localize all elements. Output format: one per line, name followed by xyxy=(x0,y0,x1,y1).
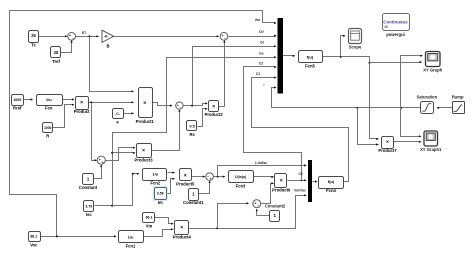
svg-text:Constant2: Constant2 xyxy=(265,203,286,208)
svg-text:Constant1: Constant1 xyxy=(183,200,204,205)
wire Sum2 to Product2 in1 xyxy=(184,102,208,106)
ramp Ramp xyxy=(452,95,465,114)
svg-text:+: + xyxy=(221,34,223,38)
svg-text:×: × xyxy=(212,104,215,110)
wire DT Sum1 to Gain B xyxy=(76,35,100,37)
wire Isc branch to Product3 in2 xyxy=(113,152,136,154)
svg-text:Constant: Constant xyxy=(79,185,98,190)
wire Fcn5 to XY Graph in2 xyxy=(323,56,423,64)
wire Product2 to Sum2b bottom xyxy=(219,40,226,106)
product Product1 xyxy=(136,88,155,125)
svg-text:0.5: 0.5 xyxy=(190,125,195,129)
svg-text:Fcn: Fcn xyxy=(45,106,53,111)
fcn Fcn1 1/u xyxy=(119,231,144,249)
svg-text:×: × xyxy=(142,148,145,154)
sum Sum3 irradiance xyxy=(97,156,105,165)
svg-text:Product1: Product1 xyxy=(136,119,155,124)
xy graph XY Graph1 xyxy=(420,131,442,152)
wire Product5 to Sum4 left xyxy=(191,176,206,178)
xy graph XY Graph xyxy=(423,52,442,73)
wire Tc to Sum1 left xyxy=(39,35,68,37)
wire DT branch to Product1 in1 xyxy=(90,37,135,93)
sum Sum2 after Product1 xyxy=(176,102,183,110)
fcn Fcn5 f(u) xyxy=(299,51,323,69)
wire I branch to Product7 in1 xyxy=(370,63,379,141)
wire Vm to Product4 in1 xyxy=(155,218,174,225)
svg-text:+: + xyxy=(210,177,212,181)
wire Product branch to Sum3 left xyxy=(92,103,97,162)
constant Constant2 value 1 xyxy=(265,203,286,221)
svg-text:1000: 1000 xyxy=(44,126,52,130)
svg-text:Fcn1: Fcn1 xyxy=(126,244,136,249)
svg-text:×: × xyxy=(386,140,389,146)
label DT xyxy=(82,31,87,35)
constant Constant1 value 1 xyxy=(183,189,204,206)
wire Mux1 to Fcn4 xyxy=(313,181,318,183)
label Vm/Voc at Mux1 xyxy=(294,189,306,193)
wire DI branch to Mux input DI xyxy=(193,45,277,105)
sum Sum5 Vm/Voc-1 xyxy=(253,200,261,208)
product Product5 xyxy=(176,169,195,187)
svg-text:f(u): f(u) xyxy=(328,179,335,184)
product Product4 xyxy=(173,221,192,240)
label DI at Mux xyxy=(260,41,263,45)
wire Product1 to Sum2 left xyxy=(152,103,173,107)
wire Product6 to Mux1 in2 C2 xyxy=(288,179,307,181)
svg-text:+: + xyxy=(254,202,256,206)
product Product2 xyxy=(205,101,224,118)
label Isc at Mux xyxy=(259,52,264,56)
svg-text:−: − xyxy=(257,204,259,208)
svg-text:×: × xyxy=(180,225,183,231)
fcn Fcn2 1/u xyxy=(143,169,167,186)
wire Tref to Sum1 bottom xyxy=(61,40,73,52)
svg-text:1/(ln(u): 1/(ln(u) xyxy=(235,175,246,179)
constant Vm value 66.1 xyxy=(143,213,155,229)
constant R value 1000 xyxy=(43,123,53,139)
wire 1-Im/Isc branch to Mux1 in1 xyxy=(218,164,307,176)
svg-text:Vm: Vm xyxy=(146,224,153,229)
wire branch to Scope xyxy=(341,35,346,57)
fcn Fcn3 1/(ln(u) xyxy=(229,171,254,189)
wire Fcn to Product in1 xyxy=(62,98,75,100)
wire V branch to Product7 in2 xyxy=(358,108,379,146)
svg-text:XY Graph: XY Graph xyxy=(423,68,442,73)
svg-text:Rs: Rs xyxy=(189,132,195,137)
svg-text:−: − xyxy=(224,37,226,41)
svg-text:Tc: Tc xyxy=(31,43,36,48)
wire Sum3 to Product3 in1 xyxy=(106,147,136,161)
product Product6 xyxy=(272,174,291,193)
powergui xyxy=(383,14,410,38)
svg-text:f(u): f(u) xyxy=(307,54,314,59)
svg-text:DI: DI xyxy=(260,41,263,45)
constant Tc value 25 xyxy=(29,31,39,48)
fcn Fcn4 f(u) xyxy=(319,177,344,194)
svg-text:-C-: -C- xyxy=(115,112,121,116)
wire Isc to Fcn2 input xyxy=(95,173,140,207)
svg-text:Vm/Voc: Vm/Voc xyxy=(294,189,306,193)
mux Mux1 xyxy=(308,160,312,202)
svg-text:Product5: Product5 xyxy=(176,182,195,187)
svg-text:Continuous: Continuous xyxy=(383,20,408,25)
label 1-Im/Isc xyxy=(255,161,267,165)
scope Scope xyxy=(349,29,362,50)
svg-text:×: × xyxy=(280,178,283,184)
fcn Fcn 1/u xyxy=(37,95,63,111)
svg-text:R: R xyxy=(46,134,49,139)
wire Im to Product5 in2 xyxy=(167,178,176,194)
wire Mux to Fcn5 xyxy=(283,55,296,57)
svg-text:Product6: Product6 xyxy=(272,188,291,193)
label DV at Mux xyxy=(259,30,264,34)
svg-text:−: − xyxy=(180,106,182,110)
wire Product3 to Sum2 bottom xyxy=(151,109,181,150)
wire Product4 to Mux1 in3 Vm/Voc xyxy=(189,194,307,229)
wire DV Sum2b to Mux xyxy=(229,35,277,37)
wire Rs to Product2 in2 xyxy=(198,108,208,127)
svg-text:Im: Im xyxy=(158,200,163,205)
wire Fcn3 to Product6 in1 xyxy=(254,176,275,178)
wire Gain B to Sum2b left xyxy=(114,35,220,37)
svg-text:×: × xyxy=(184,173,187,179)
constant Tref value 25 xyxy=(51,47,61,65)
svg-text:25: 25 xyxy=(31,33,36,38)
wire V branch to XY Graph in1 xyxy=(401,55,423,108)
svg-text:V: V xyxy=(263,83,266,87)
svg-text:Rref: Rref xyxy=(13,106,22,111)
constant Im value 3.56 selected xyxy=(153,186,168,205)
label C2 at Mux xyxy=(259,62,263,66)
constant Rref value 1000 xyxy=(12,95,24,111)
constant Voc value 88.1 xyxy=(29,232,41,248)
svg-text:Isc: Isc xyxy=(259,52,264,56)
svg-text:powergui: powergui xyxy=(386,32,405,37)
svg-text:−: − xyxy=(72,37,74,41)
svg-text:×: × xyxy=(80,100,83,106)
gain B xyxy=(102,30,114,48)
wire Product7 to XY Graph1 in2 xyxy=(394,141,422,143)
svg-text:3.56: 3.56 xyxy=(157,192,164,196)
label C2 at Mux1 xyxy=(298,172,302,176)
svg-text:1000: 1000 xyxy=(13,98,21,102)
wire Constant to Sum3 bottom xyxy=(94,164,103,178)
saturation Saturation xyxy=(416,95,437,114)
wire Voc wrap-around to Mux input Voc xyxy=(10,11,277,237)
wire V Saturation to Mux input V xyxy=(272,86,421,108)
mux Mux xyxy=(278,18,284,94)
product Product xyxy=(74,97,90,115)
svg-text:1/u: 1/u xyxy=(152,171,158,176)
svg-text:Product7: Product7 xyxy=(378,148,397,153)
svg-text:B: B xyxy=(106,44,109,49)
wire Sum5 to Product6 in2 xyxy=(261,182,275,203)
svg-text:Product3: Product3 xyxy=(134,158,153,163)
svg-text:Fcn5: Fcn5 xyxy=(305,64,315,69)
wire Ramp to Saturation xyxy=(437,107,453,109)
svg-text:3.79: 3.79 xyxy=(85,204,92,208)
product Product3 xyxy=(134,144,153,163)
svg-text:Scope: Scope xyxy=(349,45,362,50)
wire Constant1 to Sum4 bottom xyxy=(199,180,211,193)
svg-text:DV: DV xyxy=(259,30,264,34)
svg-text:Voc: Voc xyxy=(255,18,261,22)
svg-text:Product: Product xyxy=(74,109,90,114)
svg-text:C2: C2 xyxy=(259,62,263,66)
svg-text:25: 25 xyxy=(54,50,59,55)
wire Constant2 to Sum5 bottom xyxy=(256,209,270,216)
wire Product4 branch to Sum5 left xyxy=(218,202,250,228)
wire Fcn2 to Product5 in1 xyxy=(168,172,176,174)
sum Sum1 Tc-Tref xyxy=(68,32,76,40)
svg-text:DT: DT xyxy=(82,31,87,35)
svg-text:Fcn4: Fcn4 xyxy=(326,188,336,193)
svg-text:Product2: Product2 xyxy=(205,112,224,117)
wire Fcn4 to Mux input C1 xyxy=(252,76,349,181)
svg-text:×: × xyxy=(143,101,146,107)
svg-text:+: + xyxy=(99,158,101,162)
wire e to Product1 in3 xyxy=(123,112,135,114)
svg-text:Voc: Voc xyxy=(30,243,38,248)
svg-text:Ramp: Ramp xyxy=(452,95,464,100)
svg-text:C2: C2 xyxy=(298,172,302,176)
svg-text:Product4: Product4 xyxy=(173,235,192,240)
svg-text:1/u: 1/u xyxy=(128,234,134,239)
svg-text:+: + xyxy=(101,161,103,165)
sum Sum4 1-Im/Isc xyxy=(206,173,214,181)
label V at Mux xyxy=(263,83,266,87)
svg-text:88.1: 88.1 xyxy=(30,235,37,239)
wire R to Product in2 xyxy=(53,104,75,128)
svg-text:Saturation: Saturation xyxy=(416,95,437,100)
wire V branch to XY Graph1 in1 xyxy=(401,108,422,138)
constant Isc value 3.79 xyxy=(84,201,94,218)
svg-text:Fcn2: Fcn2 xyxy=(150,181,160,186)
constant Constant value 1 xyxy=(79,174,98,191)
svg-text:1-Im/Isc: 1-Im/Isc xyxy=(255,161,267,165)
svg-text:66.1: 66.1 xyxy=(146,216,153,220)
svg-text:Fcn3: Fcn3 xyxy=(236,184,246,189)
svg-text:e: e xyxy=(116,120,119,125)
svg-text:1/u: 1/u xyxy=(46,97,52,102)
svg-text:+: + xyxy=(69,34,71,38)
svg-text:Isc: Isc xyxy=(86,212,92,217)
wire C2 branch to Mux input C2 xyxy=(244,66,302,181)
wire Sum4 to Fcn3 xyxy=(214,176,226,178)
wire Voc to Fcn1 xyxy=(40,235,117,237)
svg-text:Tref: Tref xyxy=(52,59,60,64)
label C1 at Mux xyxy=(256,72,260,76)
svg-text:C1: C1 xyxy=(256,72,260,76)
wire Rref to Fcn xyxy=(23,98,34,100)
sum Sum2b before DV xyxy=(220,32,228,40)
wire Product to Product1 in2 xyxy=(89,101,135,103)
product Product7 xyxy=(378,137,397,154)
wire Isc branch to Mux input Isc xyxy=(111,56,277,205)
svg-text:-K-: -K- xyxy=(104,35,108,39)
svg-text:XY Graph1: XY Graph1 xyxy=(420,147,442,152)
wire Fcn1 to Product4 in2 xyxy=(143,228,174,236)
constant Rs value 0.5 xyxy=(187,121,197,138)
constant e -C- xyxy=(113,109,124,125)
label Voc at Mux xyxy=(255,18,261,22)
